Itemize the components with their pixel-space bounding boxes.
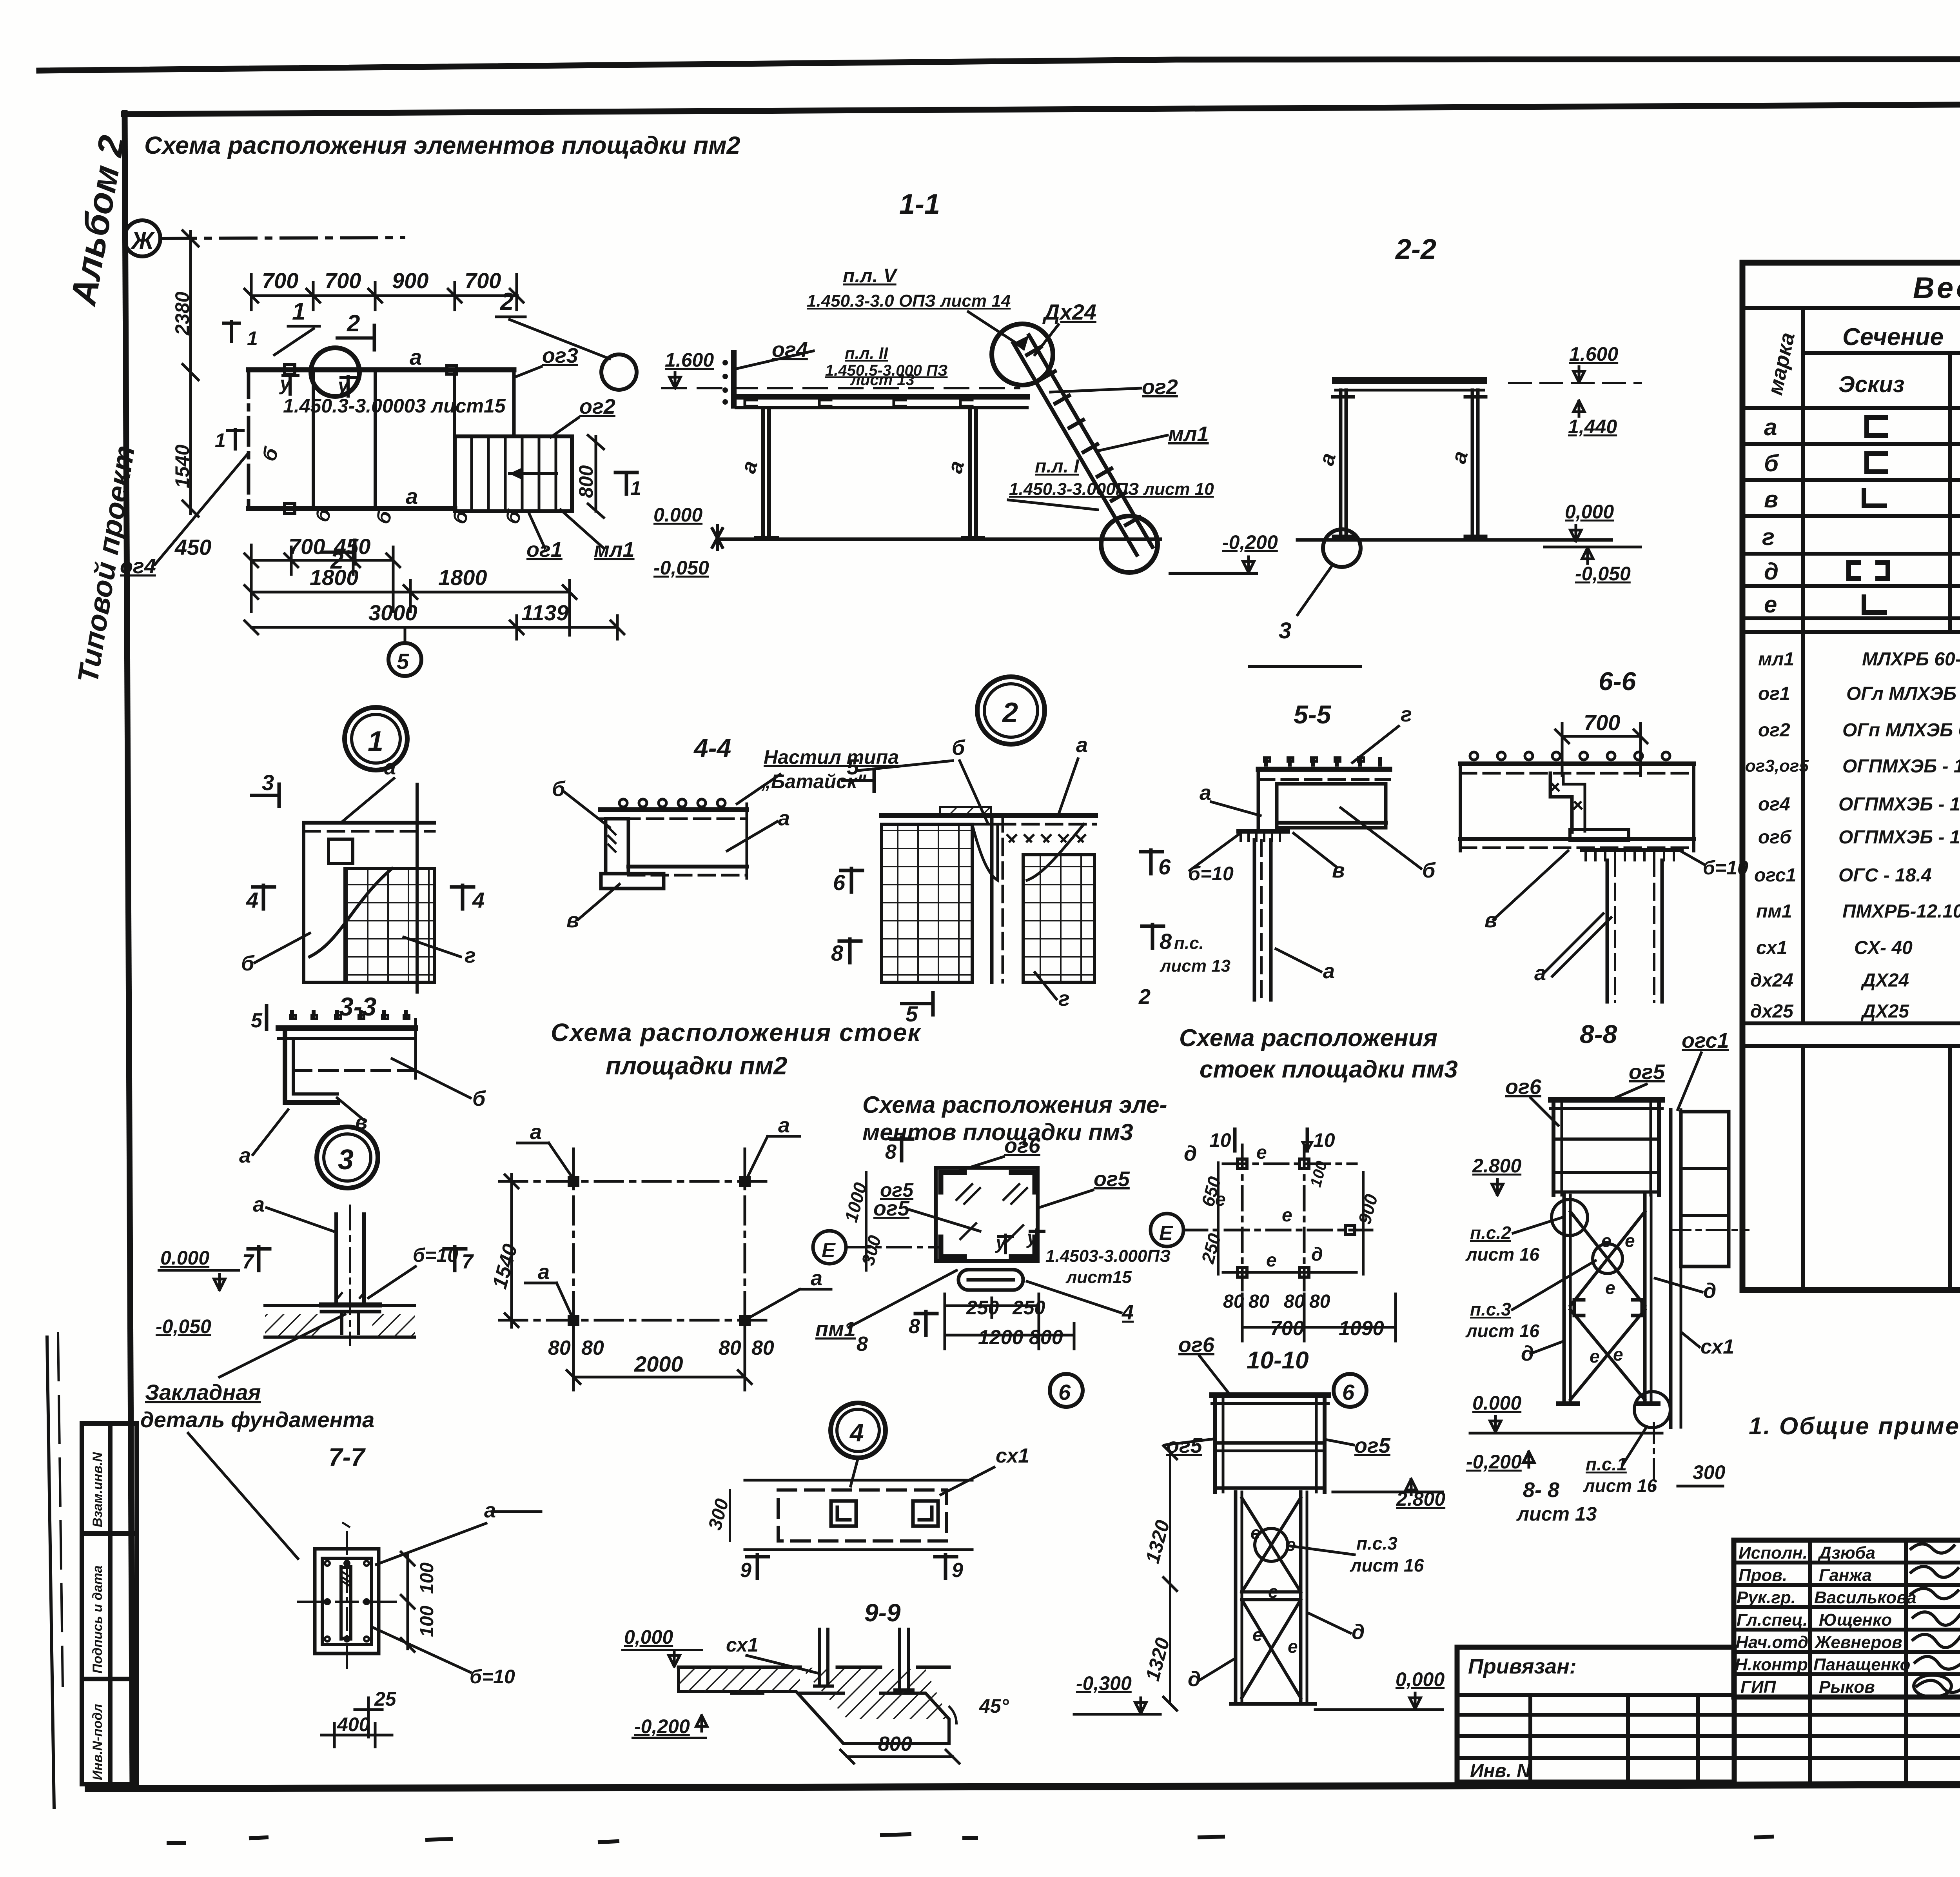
svg-text:5: 5 xyxy=(847,754,859,779)
svg-text:Панащенко: Панащенко xyxy=(1813,1655,1910,1674)
svg-text:ДХ25: ДХ25 xyxy=(1860,1001,1909,1022)
svg-text:а: а xyxy=(1447,449,1473,466)
svg-text:пм1: пм1 xyxy=(1756,901,1792,922)
svg-text:8: 8 xyxy=(857,1333,868,1356)
svg-text:е: е xyxy=(1268,1581,1278,1602)
title row line xyxy=(1742,306,1960,310)
svg-text:ог6: ог6 xyxy=(1505,1075,1542,1099)
svg-text:Жевнеров: Жевнеров xyxy=(1814,1633,1902,1652)
svg-text:4: 4 xyxy=(849,1419,864,1447)
svg-text:250: 250 xyxy=(1012,1297,1045,1319)
svg-text:г: г xyxy=(1762,524,1775,550)
svg-text:9: 9 xyxy=(740,1559,751,1582)
left sheet edge rough double line xyxy=(47,1337,54,1808)
signature table xyxy=(1734,1540,1960,1697)
svg-text:1.600: 1.600 xyxy=(1569,343,1618,365)
privyazan table xyxy=(1457,1647,1734,1782)
svg-text:Настил типа: Настил типа xyxy=(764,746,899,768)
svg-text:е: е xyxy=(1282,1205,1292,1226)
svg-text:5-5: 5-5 xyxy=(1294,700,1332,729)
svg-text:Василькова: Василькова xyxy=(1814,1588,1916,1607)
table data rows xyxy=(1762,414,1960,618)
ogs1 stair stringer block xyxy=(1681,1112,1729,1266)
header sub split xyxy=(1803,351,1960,355)
svg-text:1200: 1200 xyxy=(978,1326,1024,1349)
svg-text:5: 5 xyxy=(251,1009,263,1032)
svg-text:4: 4 xyxy=(1122,1301,1134,1324)
svg-text:в: в xyxy=(1332,859,1345,882)
svg-text:4: 4 xyxy=(246,888,258,912)
svg-text:8- 8: 8- 8 xyxy=(1523,1478,1559,1502)
svg-text:лист15: лист15 xyxy=(1065,1268,1132,1287)
svg-text:Инв.N-подл: Инв.N-подл xyxy=(90,1704,105,1780)
svg-text:900: 900 xyxy=(1354,1192,1381,1227)
svg-text:700: 700 xyxy=(325,268,361,293)
svg-text:п.с.3: п.с.3 xyxy=(1356,1533,1397,1554)
svg-text:д: д xyxy=(1352,1620,1365,1644)
legs xyxy=(1563,1195,1566,1404)
svg-text:а: а xyxy=(1076,733,1088,757)
svg-text:1: 1 xyxy=(292,298,305,325)
header bottom xyxy=(1742,406,1960,410)
svg-text:е: е xyxy=(1256,1142,1267,1163)
svg-text:2000: 2000 xyxy=(634,1352,683,1376)
svg-text:Закладная: Закладная xyxy=(145,1380,261,1405)
ladder xyxy=(1013,335,1152,555)
svg-text:е: е xyxy=(1250,1523,1261,1543)
svg-text:7: 7 xyxy=(242,1250,254,1273)
svg-text:10: 10 xyxy=(1209,1129,1231,1151)
dims xyxy=(510,1174,513,1327)
svg-text:-0,050: -0,050 xyxy=(156,1316,211,1337)
svg-text:800: 800 xyxy=(1029,1326,1063,1349)
svg-text:450: 450 xyxy=(174,535,211,560)
svg-text:10: 10 xyxy=(1313,1129,1335,1151)
svg-text:б: б xyxy=(952,736,965,760)
legs xyxy=(756,408,983,538)
svg-text:лист 13: лист 13 xyxy=(850,371,915,389)
svg-text:6: 6 xyxy=(833,870,846,895)
svg-text:0,000: 0,000 xyxy=(1396,1668,1445,1690)
svg-text:2: 2 xyxy=(1138,985,1151,1008)
svg-text:ог2: ог2 xyxy=(579,395,615,418)
svg-text:п.с.1: п.с.1 xyxy=(1586,1454,1627,1474)
svg-text:е: е xyxy=(1601,1230,1612,1251)
svg-text:1,440: 1,440 xyxy=(1568,416,1617,438)
svg-text:лист 16: лист 16 xyxy=(1465,1244,1540,1265)
svg-text:1. Общие примечания ст. на: 1. Общие примечания ст. на листе 14 xyxy=(1749,1413,1960,1440)
svg-text:ог5: ог5 xyxy=(1094,1167,1130,1191)
sheet top edge line xyxy=(39,59,1960,71)
frame bottom border xyxy=(88,1783,1960,1789)
svg-text:е: е xyxy=(1252,1624,1263,1645)
svg-text:-0,200: -0,200 xyxy=(1466,1451,1522,1473)
svg-text:п.л. I: п.л. I xyxy=(1035,456,1080,477)
svg-text:Схема расположения: Схема расположения xyxy=(1179,1025,1437,1052)
ground line xyxy=(719,538,1160,541)
bottom-left stamp strip xyxy=(82,1423,137,1784)
svg-text:700: 700 xyxy=(289,534,325,559)
svg-text:7-7: 7-7 xyxy=(328,1443,366,1471)
svg-text:6: 6 xyxy=(1342,1380,1355,1405)
legs xyxy=(1333,390,1486,536)
svg-text:ог4: ог4 xyxy=(1758,794,1790,815)
svg-text:ОГПМХЭБ - 12.9: ОГПМХЭБ - 12.9 xyxy=(1842,756,1960,777)
svg-text:100: 100 xyxy=(417,1606,437,1637)
svg-text:Схема расположения элементов: Схема расположения элементов площадки пм… xyxy=(144,132,740,159)
svg-text:1540: 1540 xyxy=(488,1241,522,1291)
svg-text:а: а xyxy=(384,756,396,779)
svg-text:Е: Е xyxy=(1159,1222,1173,1245)
svg-text:в: в xyxy=(1485,909,1497,932)
svg-text:Нач.отд.: Нач.отд. xyxy=(1736,1633,1813,1652)
svg-text:3000: 3000 xyxy=(368,600,417,625)
frame top border xyxy=(124,102,1960,114)
svg-text:700: 700 xyxy=(1584,710,1620,735)
svg-text:ог2: ог2 xyxy=(1758,720,1790,741)
column stubs xyxy=(815,1629,913,1690)
right extra column xyxy=(1669,1110,1673,1427)
svg-text:8: 8 xyxy=(831,941,844,965)
svg-text:300: 300 xyxy=(1693,1461,1726,1483)
svg-text:ог5: ог5 xyxy=(1354,1434,1391,1457)
top bar xyxy=(1336,377,1484,384)
svg-text:300: 300 xyxy=(704,1496,733,1532)
svg-text:1.450.3-3.00003 лист15: 1.450.3-3.00003 лист15 xyxy=(283,395,506,417)
svg-text:Схема расположения стоек: Схема расположения стоек xyxy=(551,1018,922,1047)
svg-text:лист 16: лист 16 xyxy=(1350,1555,1424,1575)
svg-text:6: 6 xyxy=(1158,854,1171,879)
svg-text:б: б xyxy=(258,444,283,464)
ground with step xyxy=(679,1666,949,1669)
X bracing xyxy=(1242,1498,1301,1592)
svg-text:дх25: дх25 xyxy=(1750,1001,1794,1022)
svg-text:дх24: дх24 xyxy=(1750,970,1793,991)
X bracing xyxy=(1570,1212,1645,1306)
svg-text:4-4: 4-4 xyxy=(693,733,731,762)
svg-text:ог1: ог1 xyxy=(1758,683,1790,704)
svg-text:п.л. V: п.л. V xyxy=(843,265,898,287)
svg-text:ог4: ог4 xyxy=(120,554,156,578)
svg-text:г: г xyxy=(1401,703,1412,726)
svg-text:ог5: ог5 xyxy=(880,1179,914,1201)
svg-text:25: 25 xyxy=(374,1688,397,1710)
svg-text:80: 80 xyxy=(581,1337,604,1359)
svg-text:Взам.инв.N: Взам.инв.N xyxy=(90,1452,105,1527)
svg-text:3: 3 xyxy=(262,770,274,795)
sketch glyphs column xyxy=(1849,418,1888,612)
svg-text:Привязан:: Привязан: xyxy=(1468,1655,1577,1678)
svg-text:б: б xyxy=(552,777,566,801)
left dim line xyxy=(183,231,198,516)
svg-text:а: а xyxy=(406,484,418,509)
axis dash line xyxy=(160,238,404,238)
internal beams xyxy=(312,372,315,507)
svg-text:0.000: 0.000 xyxy=(160,1247,209,1269)
ladder marker T1 right xyxy=(615,471,637,474)
svg-text:1: 1 xyxy=(368,726,383,757)
svg-text:е: е xyxy=(1764,591,1777,618)
svg-text:Схема расположения эле-: Схема расположения эле- xyxy=(862,1092,1167,1118)
svg-text:700: 700 xyxy=(262,268,298,293)
svg-text:ог6: ог6 xyxy=(1004,1134,1041,1157)
svg-text:огб: огб xyxy=(1758,827,1792,848)
svg-text:0,000: 0,000 xyxy=(624,1626,673,1648)
svg-text:1.450.3-3.0 ОПЗ лист 14: 1.450.3-3.0 ОПЗ лист 14 xyxy=(807,291,1011,311)
svg-text:б: б xyxy=(1764,450,1779,476)
svg-text:а: а xyxy=(410,345,422,369)
svg-text:3: 3 xyxy=(338,1144,354,1176)
svg-text:Ж: Ж xyxy=(130,227,155,254)
svg-text:4: 4 xyxy=(472,888,485,912)
svg-text:-0,200: -0,200 xyxy=(1222,531,1278,553)
svg-text:площадки пм2: площадки пм2 xyxy=(606,1052,788,1080)
svg-text:д: д xyxy=(1184,1142,1197,1165)
svg-text:1-1: 1-1 xyxy=(899,189,940,220)
svg-text:а: а xyxy=(538,1260,550,1284)
svg-text:а: а xyxy=(1315,451,1341,468)
svg-text:8: 8 xyxy=(909,1315,920,1338)
svg-text:1.4503-3.000ПЗ: 1.4503-3.000ПЗ xyxy=(1045,1246,1171,1266)
axis E circle left xyxy=(813,1231,846,1264)
svg-text:е: е xyxy=(1605,1277,1615,1298)
svg-text:100: 100 xyxy=(417,1563,437,1594)
svg-text:80: 80 xyxy=(719,1337,741,1359)
svg-text:марка: марка xyxy=(1763,331,1799,397)
svg-text:а: а xyxy=(530,1120,542,1144)
svg-text:стоек площадки пм3: стоек площадки пм3 xyxy=(1200,1056,1458,1083)
svg-text:80: 80 xyxy=(1249,1291,1270,1312)
svg-text:д: д xyxy=(1311,1244,1323,1265)
svg-text:а: а xyxy=(253,1193,265,1216)
svg-text:сх1: сх1 xyxy=(996,1445,1029,1467)
svg-text:огс1: огс1 xyxy=(1682,1029,1729,1052)
svg-text:б: б xyxy=(472,1087,486,1110)
section cut 3 underline xyxy=(1250,665,1360,668)
svg-text:п.с.: п.с. xyxy=(1174,934,1204,953)
svg-text:мл1: мл1 xyxy=(594,538,635,561)
svg-text:6-6: 6-6 xyxy=(1599,667,1637,696)
svg-text:1.600: 1.600 xyxy=(665,349,714,371)
svg-text:Рук.гр.: Рук.гр. xyxy=(1737,1588,1796,1607)
svg-text:Рыков: Рыков xyxy=(1819,1677,1875,1697)
svg-text:е: е xyxy=(1266,1250,1277,1271)
svg-text:Пров.: Пров. xyxy=(1739,1566,1787,1585)
oval handle xyxy=(958,1270,1023,1290)
svg-text:д: д xyxy=(1703,1279,1716,1303)
svg-text:-0,200: -0,200 xyxy=(634,1715,690,1737)
svg-text:80: 80 xyxy=(1284,1291,1305,1312)
svg-text:ПМХРБ-12.10: ПМХРБ-12.10 xyxy=(1842,901,1960,922)
legs xyxy=(1234,1492,1238,1704)
svg-text:ОГС - 18.4: ОГС - 18.4 xyxy=(1838,865,1932,886)
svg-text:в: в xyxy=(1764,486,1778,512)
svg-text:8-8: 8-8 xyxy=(1580,1019,1617,1048)
svg-text:пм1: пм1 xyxy=(815,1317,856,1341)
table list rows xyxy=(1745,649,1960,1022)
column verticals header+data zone xyxy=(1801,308,1805,632)
svg-text:п.с.3: п.с.3 xyxy=(1470,1299,1511,1319)
svg-text:2380: 2380 xyxy=(171,292,193,336)
svg-text:г: г xyxy=(465,944,476,967)
svg-text:Подпись и дата: Подпись и дата xyxy=(90,1565,105,1673)
svg-text:300: 300 xyxy=(857,1233,885,1268)
svg-text:сх1: сх1 xyxy=(726,1634,759,1656)
svg-text:-0,300: -0,300 xyxy=(1076,1672,1132,1694)
svg-text:Эскиз: Эскиз xyxy=(1838,372,1904,397)
svg-text:Сечение: Сечение xyxy=(1842,323,1944,351)
svg-text:Гл.спец.: Гл.спец. xyxy=(1737,1610,1808,1630)
left post with bolts xyxy=(731,353,737,406)
svg-text:а: а xyxy=(1764,414,1777,440)
svg-text:8: 8 xyxy=(1160,929,1172,954)
svg-text:ог3,ог5: ог3,ог5 xyxy=(1745,756,1809,776)
svg-text:а: а xyxy=(737,458,762,476)
svg-text:7: 7 xyxy=(462,1250,474,1273)
svg-text:ог5: ог5 xyxy=(1629,1060,1665,1084)
svg-text:900: 900 xyxy=(392,268,428,293)
column verticals tall empty zone xyxy=(1801,1046,1805,1290)
svg-text:8: 8 xyxy=(885,1141,897,1163)
column verticals list zone xyxy=(1801,632,1805,1023)
svg-text:-0,050: -0,050 xyxy=(653,557,709,579)
svg-text:а: а xyxy=(1323,959,1335,983)
bottom dims xyxy=(245,545,624,639)
svg-text:ОГл МЛХЭБ 60-12.18: ОГл МЛХЭБ 60-12.18 xyxy=(1846,683,1960,704)
svg-text:МЛХРБ 60-18.8: МЛХРБ 60-18.8 xyxy=(1862,649,1960,670)
svg-text:а: а xyxy=(239,1144,251,1167)
svg-text:800: 800 xyxy=(575,465,597,498)
svg-text:ОГп МЛХЭБ 60-12.18: ОГп МЛХЭБ 60-12.18 xyxy=(1842,720,1960,741)
svg-text:Ющенко: Ющенко xyxy=(1819,1610,1892,1630)
svg-text:мл1: мл1 xyxy=(1168,422,1209,446)
svg-text:лист 16: лист 16 xyxy=(1465,1321,1540,1341)
svg-text:е: е xyxy=(1613,1344,1623,1365)
svg-text:1: 1 xyxy=(247,327,258,349)
list section bottom xyxy=(1742,1021,1960,1025)
svg-text:б=10: б=10 xyxy=(1703,857,1748,879)
svg-text:е: е xyxy=(1590,1346,1600,1366)
svg-text:2: 2 xyxy=(1002,697,1018,729)
svg-text:а: а xyxy=(811,1266,822,1290)
svg-text:огс1: огс1 xyxy=(1754,865,1796,886)
svg-text:деталь фундамента: деталь фундамента xyxy=(140,1407,374,1432)
svg-text:2: 2 xyxy=(347,310,360,336)
svg-text:80: 80 xyxy=(1309,1291,1330,1312)
svg-text:Дх24: Дх24 xyxy=(1042,300,1096,324)
svg-text:ОГПМХЭБ - 12.18: ОГПМХЭБ - 12.18 xyxy=(1838,794,1960,815)
svg-text:1540: 1540 xyxy=(171,445,193,488)
svg-text:-0,050: -0,050 xyxy=(1575,563,1631,585)
svg-text:е: е xyxy=(1286,1534,1296,1555)
svg-text:сх1: сх1 xyxy=(1756,938,1787,958)
svg-text:Альбом 2: Альбом 2 xyxy=(63,133,132,309)
svg-text:а: а xyxy=(943,458,969,476)
svg-text:ог3: ог3 xyxy=(542,344,578,367)
svg-text:а: а xyxy=(1200,781,1211,805)
svg-text:250: 250 xyxy=(1197,1231,1225,1266)
svg-text:д: д xyxy=(1764,558,1779,585)
svg-text:800: 800 xyxy=(878,1733,912,1755)
svg-text:Ганжа: Ганжа xyxy=(1819,1566,1872,1585)
svg-text:700: 700 xyxy=(465,268,501,293)
svg-text:п.л. II: п.л. II xyxy=(845,344,888,362)
svg-text:лист 13: лист 13 xyxy=(1160,956,1230,976)
svg-text:Е: Е xyxy=(822,1239,836,1262)
svg-text:ДХ24: ДХ24 xyxy=(1860,970,1909,991)
svg-text:г: г xyxy=(1058,987,1070,1010)
svg-text:Исполн.: Исполн. xyxy=(1739,1543,1808,1563)
svg-text:ОГПМХЭБ - 12.12: ОГПМХЭБ - 12.12 xyxy=(1838,827,1960,848)
svg-text:Инв. N: Инв. N xyxy=(1470,1761,1531,1781)
svg-text:250: 250 xyxy=(966,1297,999,1319)
svg-text:0,000: 0,000 xyxy=(1565,501,1614,523)
svg-text:ГИП: ГИП xyxy=(1740,1677,1777,1697)
svg-text:2: 2 xyxy=(500,288,514,315)
svg-text:80: 80 xyxy=(751,1337,774,1359)
svg-text:мл1: мл1 xyxy=(1758,649,1794,670)
svg-text:ог2: ог2 xyxy=(1142,375,1178,399)
frame left border xyxy=(125,113,132,1788)
svg-text:е: е xyxy=(1625,1230,1635,1251)
svg-text:10-10: 10-10 xyxy=(1247,1347,1309,1374)
svg-text:а: а xyxy=(778,807,790,830)
svg-text:Дзюба: Дзюба xyxy=(1817,1543,1875,1563)
svg-text:2.800: 2.800 xyxy=(1472,1155,1521,1177)
svg-text:Ведомость элементов: Ведомость элементов xyxy=(1913,271,1960,305)
svg-text:лист 16: лист 16 xyxy=(1583,1475,1657,1496)
axis circle Zh xyxy=(124,220,160,256)
circle 3 callout xyxy=(1323,529,1361,567)
svg-text:80: 80 xyxy=(548,1337,571,1359)
svg-text:9-9: 9-9 xyxy=(864,1599,901,1627)
deck xyxy=(736,397,1027,408)
svg-text:1.450.3-3.000ПЗ лист 10: 1.450.3-3.000ПЗ лист 10 xyxy=(1009,480,1214,499)
svg-text:1139: 1139 xyxy=(521,600,568,625)
svg-text:3: 3 xyxy=(1279,618,1291,643)
svg-text:400: 400 xyxy=(337,1713,370,1735)
svg-text:сх1: сх1 xyxy=(1700,1336,1734,1358)
svg-text:5: 5 xyxy=(397,649,409,674)
svg-text:9: 9 xyxy=(952,1559,963,1582)
signatures squiggles xyxy=(1911,1544,1960,1697)
svg-text:б: б xyxy=(241,952,255,975)
svg-text:лист 13: лист 13 xyxy=(1516,1503,1597,1525)
signature table texts xyxy=(1735,1543,1960,1697)
top dim line 700 700 900 700 xyxy=(245,274,523,310)
circle 5 xyxy=(388,643,421,676)
svg-text:45°: 45° xyxy=(979,1695,1009,1717)
table outer xyxy=(1742,263,1960,1290)
svg-text:ог6: ог6 xyxy=(1178,1333,1215,1357)
svg-text:2-2: 2-2 xyxy=(1395,234,1436,265)
bottom edge scan dashes xyxy=(169,1834,1960,1843)
svg-text:п.с.2: п.с.2 xyxy=(1470,1223,1511,1243)
svg-text:Н.контр.: Н.контр. xyxy=(1735,1655,1813,1674)
svg-text:б=10: б=10 xyxy=(470,1666,515,1688)
svg-text:СХ- 40: СХ- 40 xyxy=(1854,938,1913,958)
svg-text:0.000: 0.000 xyxy=(653,504,702,526)
svg-text:6: 6 xyxy=(1058,1380,1071,1405)
svg-text:б: б xyxy=(1422,859,1436,882)
plan small squares at column 1 and 2 xyxy=(285,365,295,375)
svg-text:1: 1 xyxy=(215,429,226,451)
plan rectangle xyxy=(249,370,572,511)
detail 1 drawing (grid panel) xyxy=(304,784,434,992)
svg-text:1800: 1800 xyxy=(438,565,487,590)
data row lines xyxy=(1742,442,1960,446)
right rotated dim 800 xyxy=(595,436,597,511)
